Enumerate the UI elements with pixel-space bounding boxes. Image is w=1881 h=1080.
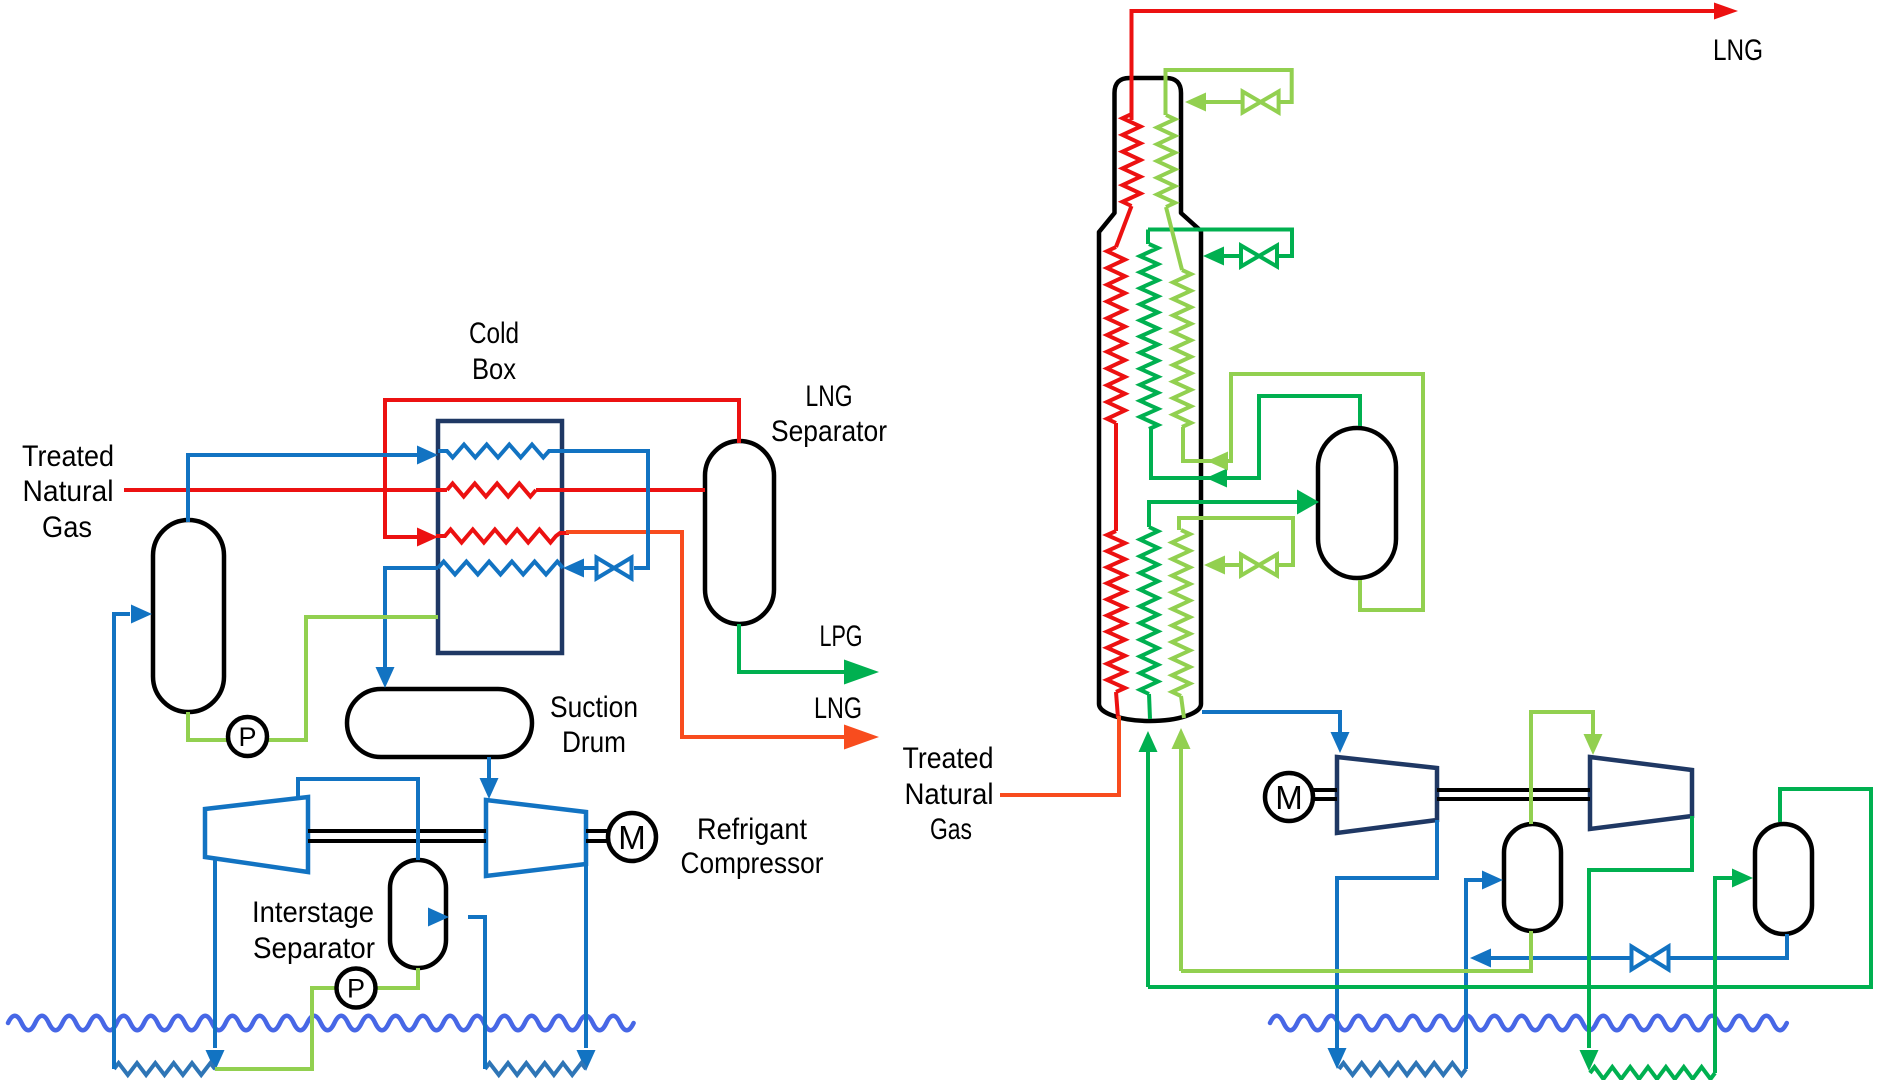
svg-text:Separator: Separator: [771, 415, 887, 448]
pipe valve to riser junction (blue): [1489, 956, 1631, 960]
svg-text:Suction: Suction: [550, 691, 638, 724]
svg-text:LNG: LNG: [806, 380, 853, 413]
pipe interstage separator bottom to P2 (light green): [375, 968, 418, 988]
svg-text:LPG: LPG: [820, 620, 863, 653]
pipe sea coil B riser to interstage separator (blue): [468, 917, 485, 1069]
compressor stage 2 (blue trapezoid): [486, 800, 586, 876]
svg-text:P: P: [238, 722, 256, 752]
vessel V1 feed gas separator: [153, 520, 224, 712]
svg-text:LNG: LNG: [814, 692, 862, 725]
svg-text:Gas: Gas: [930, 813, 972, 846]
coil red middle zigzag: [1107, 247, 1125, 423]
coil dark green upper zigzag in column: [1146, 230, 1150, 245]
pipe V1 top to cold box coil1 (blue): [188, 455, 417, 522]
pipe dark green bottom header: [1148, 789, 1871, 987]
instrument P2 circle: [337, 969, 376, 1008]
pipe red coil2 outlet to LNG separator: [536, 488, 705, 492]
coil 2 red zigzag in cold box: [447, 484, 536, 497]
pipe interstage separator to 1st stage compressor (blue): [298, 779, 418, 860]
pipe sea coil C riser to suction drum 1 (blue): [1466, 880, 1482, 1069]
pipe red stub to column bottom: [1116, 692, 1118, 718]
coil red lower zigzag: [1107, 531, 1125, 692]
pipe red recycle: LNG separator top to cold box coil3: [385, 400, 739, 537]
svg-text:Drum: Drum: [562, 726, 626, 759]
cold box outline: [438, 421, 562, 653]
pipe light green top valve spray arrow: [1205, 100, 1243, 104]
pipe suction drum2 letdown (blue): [1670, 934, 1787, 958]
compressor C1 (navy trapezoid): [1337, 757, 1437, 833]
pipe dark green vapor to HP separator (big arrow): [1149, 502, 1298, 527]
MCHE column shell: [1099, 78, 1201, 721]
svg-text:M: M: [618, 819, 646, 856]
svg-text:P: P: [347, 974, 365, 1004]
pipe dark green valve spray arrow: [1222, 254, 1241, 258]
svg-text:Treated: Treated: [903, 742, 994, 775]
instrument P1 circle: [228, 717, 267, 756]
coil dark green lower zigzag: [1140, 527, 1158, 694]
pipe column overhead MR vapor to compressor 1 (blue): [1202, 712, 1340, 734]
JT valve blue: [597, 558, 632, 579]
svg-text:Cold: Cold: [469, 317, 519, 350]
sea water surface right (wavy): [1270, 1016, 1787, 1031]
pipe coil4 to suction drum (blue): [385, 568, 438, 670]
vessel MR suction drum 1: [1504, 824, 1561, 931]
vessel MR suction drum 2: [1755, 824, 1812, 934]
coil 3 red zigzag in cold box: [436, 530, 569, 543]
svg-text:Refrigant: Refrigant: [697, 813, 808, 846]
pipe red straight section in column: [1114, 423, 1118, 531]
coil light green upper zigzag in column: [1157, 115, 1175, 207]
compressor C2 (navy trapezoid): [1590, 757, 1692, 829]
pipe suction drum to 2nd stage compressor (blue): [487, 757, 491, 780]
sea cooling coil B (blue sawtooth): [485, 1063, 586, 1075]
coil 4 blue zigzag in cold box: [438, 562, 563, 575]
pipe valve to coil4 with arrow (blue): [584, 566, 597, 570]
pipe coil1 outlet loop to JT valve (blue): [562, 451, 648, 568]
svg-text:Separator: Separator: [253, 932, 375, 965]
pipe LNG product top (red): [1132, 11, 1715, 120]
pipe sea coil A riser to V1 (blue): [114, 614, 130, 1069]
coil red upper zigzag in column: [1123, 114, 1141, 206]
pipe treated natural gas feed (red): [124, 488, 447, 492]
valve light green middle: [1241, 555, 1277, 576]
motor M2 shaft stub: [1313, 788, 1337, 792]
svg-text:Compressor: Compressor: [681, 847, 824, 880]
coil 1 blue zigzag in cold box: [438, 445, 562, 458]
pipe 2nd stage discharge to sea coil B (blue): [584, 864, 588, 1048]
motor M circle: [608, 813, 656, 861]
compressor stage 1 (blue trapezoid): [205, 797, 308, 872]
pipe P2 to sea coil A (light green): [215, 988, 337, 1069]
compressor shaft (double line): [308, 829, 486, 833]
svg-text:Interstage: Interstage: [252, 896, 374, 929]
pipe light green middle valve spray arrow: [1224, 563, 1241, 567]
pipe compressor 2 discharge to sea coil (dark green): [1589, 816, 1692, 1048]
valve dark green top: [1241, 246, 1277, 267]
motor shaft stub: [586, 829, 610, 833]
pipe LNG product (orange) from coil3 to LNG arrow: [566, 532, 845, 737]
valve blue letdown: [1632, 947, 1669, 970]
svg-text:Gas: Gas: [42, 511, 92, 544]
valve light green top: [1243, 92, 1279, 113]
pipe P1 to cold box (light green): [266, 617, 438, 740]
sea cooling coil D (dark green sawtooth): [1590, 1067, 1715, 1079]
pipe suction drum1 bottom to column (light green): [1181, 931, 1531, 971]
pipe light green top JT loop: [1166, 70, 1292, 115]
motor M2 circle: [1265, 773, 1313, 821]
vessel suction drum: [347, 689, 532, 757]
pipe light green riser into column bottom: [1179, 749, 1183, 971]
svg-text:Natural: Natural: [23, 475, 114, 508]
svg-text:Natural: Natural: [905, 778, 994, 811]
vessel LNG separator: [705, 441, 774, 624]
sea water surface left (wavy): [8, 1016, 634, 1031]
svg-text:LNG: LNG: [1713, 34, 1763, 67]
compressor shaft right (double line): [1437, 788, 1590, 792]
vessel interstage separator: [390, 860, 446, 968]
pipe LPG product (green) from LNG separator: [739, 624, 845, 672]
pipe dark green MR return riser into column: [1146, 752, 1150, 987]
pipe compressor 1 discharge to sea coil C (blue): [1337, 820, 1437, 1048]
sea cooling coil C (blue sawtooth): [1339, 1063, 1466, 1075]
svg-text:Box: Box: [472, 353, 516, 386]
svg-text:Treated: Treated: [22, 440, 114, 473]
pipe suction drum1 top to compressor 2 (light green): [1531, 712, 1593, 824]
pipe V1 bottom to pressure letdown P1 (light green): [188, 712, 228, 740]
pipe 1st stage compressor discharge to sea coil (blue): [213, 858, 217, 1048]
sea cooling coil A (blue sawtooth): [114, 1063, 215, 1075]
coil light green lower zigzag: [1179, 518, 1293, 565]
vessel HP MR separator (capsule right of column): [1318, 428, 1396, 578]
svg-text:M: M: [1275, 779, 1303, 816]
coil red transition diagonal: [1116, 206, 1132, 247]
pipe dark green top JT loop: [1148, 230, 1292, 257]
pipe sea coil D riser to suction drum 2 (dark green): [1715, 878, 1732, 1073]
pipe treated natural gas feed right (orange): [1000, 716, 1119, 795]
